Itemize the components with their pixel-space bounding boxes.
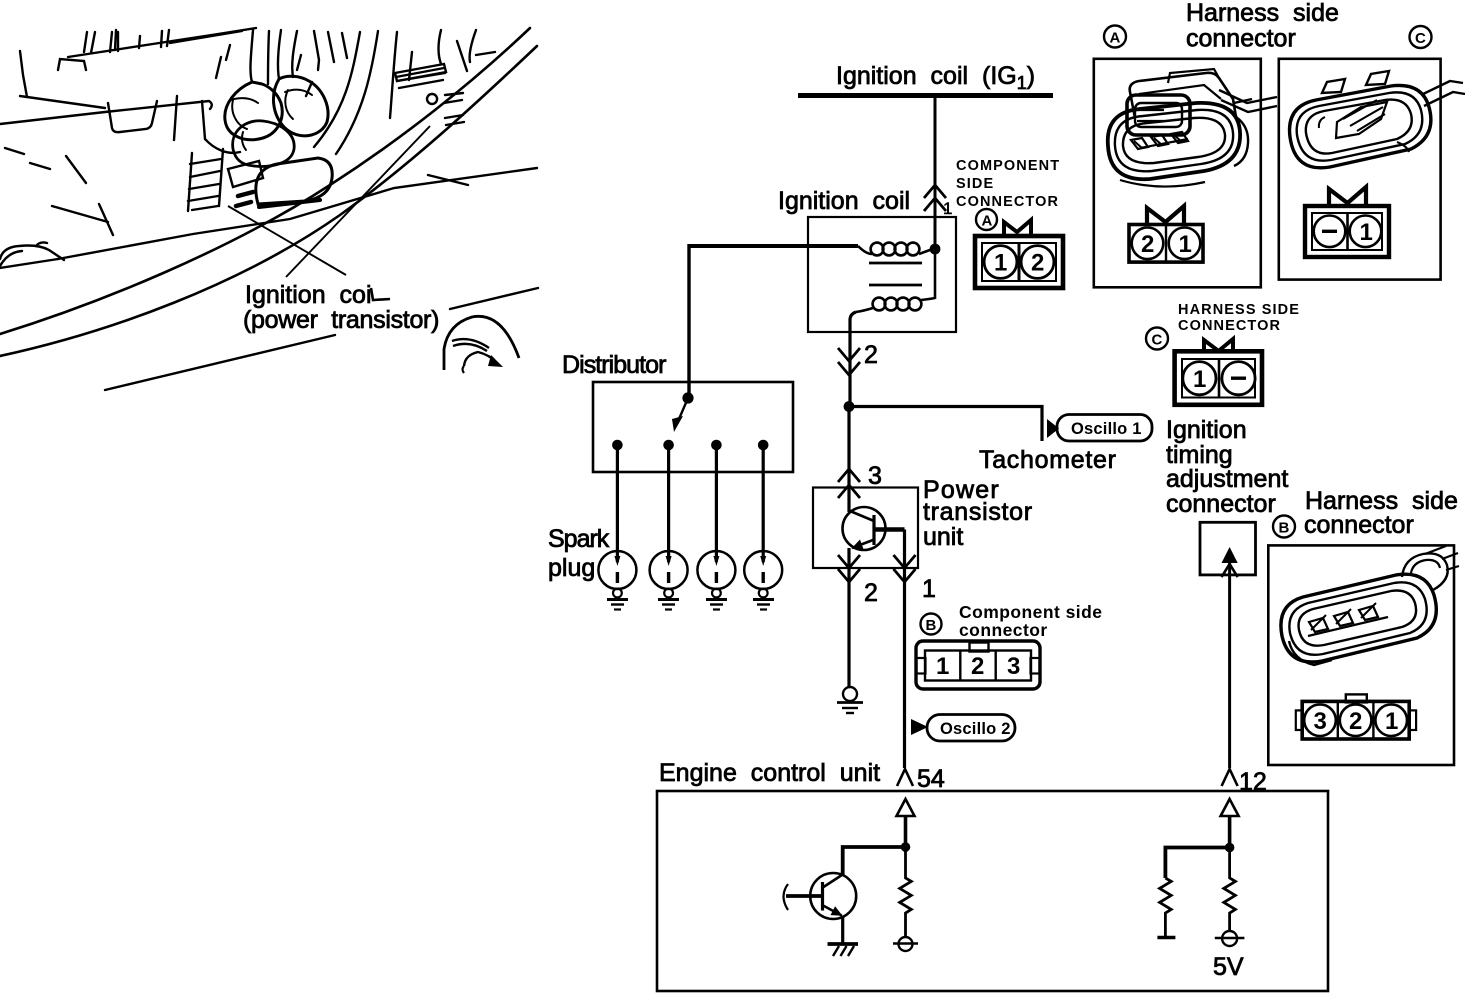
junction ECU right	[1225, 843, 1235, 853]
wire to R2	[1165, 848, 1229, 879]
svg-text:C: C	[1415, 30, 1426, 47]
harness side connector A box	[1094, 59, 1261, 287]
harness side connector C box (top right)	[1279, 59, 1441, 280]
svg-text:1: 1	[1193, 366, 1206, 393]
terminal triangle pin 54	[897, 799, 915, 816]
label HARNESS SIDE CONNECTOR (middle)	[1178, 302, 1300, 334]
label Power transistor unit	[923, 476, 1033, 551]
mating mark connector A	[1004, 220, 1031, 235]
svg-text:1: 1	[936, 653, 949, 680]
svg-text:Ignition coil: Ignition coil	[778, 187, 910, 215]
spark plug 3	[697, 551, 735, 610]
power transistor unit box	[813, 488, 918, 569]
wire pin 12 internal	[1228, 816, 1232, 852]
circled B (component side)	[921, 614, 942, 635]
distributor box	[593, 382, 793, 472]
circled C (harness side)	[1410, 26, 1432, 48]
connector symbol pin 3	[838, 469, 860, 498]
svg-text:1: 1	[943, 199, 952, 218]
transistor Q2	[786, 873, 856, 919]
harness side connector C pin box (top)	[1305, 206, 1389, 257]
svg-text:54: 54	[917, 765, 945, 793]
connector symbol pin 1 (coil supply)	[924, 185, 946, 211]
svg-text:Ignition: Ignition	[1166, 416, 1247, 444]
wire to tachometer	[849, 407, 1042, 442]
svg-text:unit: unit	[923, 523, 963, 551]
terminal triangle pin 12	[1221, 799, 1239, 816]
svg-text:5V: 5V	[1213, 953, 1244, 981]
label Harness side connector (top)	[1186, 0, 1339, 53]
harness side connector C illustration	[1290, 71, 1465, 168]
coil T1 secondary winding	[856, 308, 873, 312]
harness side connector A pin box	[1129, 225, 1203, 263]
svg-text:CONNECTOR: CONNECTOR	[956, 194, 1059, 210]
distributor rotor arm	[679, 398, 688, 419]
wire pin 54 internal	[904, 816, 908, 852]
oscillo 1 probe	[1047, 415, 1152, 442]
spark plug 2	[650, 551, 688, 610]
svg-text:Spark: Spark	[548, 525, 610, 553]
circled A (harness side)	[1104, 26, 1126, 48]
svg-text:3: 3	[1007, 653, 1020, 680]
svg-text:connector: connector	[959, 620, 1048, 640]
svg-text:2: 2	[1141, 231, 1154, 258]
svg-text:B: B	[1279, 520, 1290, 537]
ignition timing adjustment connector box	[1200, 522, 1256, 575]
mating mark harness C (top)	[1329, 187, 1366, 207]
wire secondary to junction	[934, 250, 937, 299]
distributor terminals	[612, 440, 623, 451]
coil T1 core	[869, 262, 922, 265]
junction coil output	[930, 244, 941, 255]
svg-text:adjustment: adjustment	[1166, 465, 1288, 493]
terminal circle 5V	[1215, 931, 1245, 946]
ground PTU emitter	[837, 687, 863, 713]
junction tachometer tap	[844, 401, 855, 412]
svg-text:Ignition coil (IG1): Ignition coil (IG1)	[836, 62, 1035, 93]
wire IG1 to coil connector	[934, 95, 937, 250]
node IG1 bus bar	[798, 93, 1053, 98]
harness side connector A illustration	[1108, 69, 1277, 187]
label Harness side connector (bottom)	[1304, 487, 1458, 539]
Q2 base continuation arc	[784, 884, 789, 910]
oscillo 2 probe	[911, 715, 1015, 742]
svg-text:3: 3	[1314, 708, 1327, 735]
connector symbol pin 2 (PTU emitter)	[838, 555, 860, 582]
leader line 2 (illustration)	[286, 126, 430, 277]
circled C (middle)	[1146, 328, 1168, 350]
wire coil pin2 down	[850, 312, 856, 407]
svg-text:Engine control unit: Engine control unit	[659, 759, 880, 787]
circled B (harness side)	[1273, 516, 1295, 538]
coil T1 primary winding	[858, 246, 872, 254]
ignition coil T1 box	[808, 217, 956, 332]
mating mark harness C (middle)	[1204, 339, 1233, 353]
svg-text:connector: connector	[1166, 490, 1276, 518]
wire distributor to spark plug 1	[616, 445, 619, 562]
svg-text:1: 1	[1385, 708, 1398, 735]
wire coil to distributor (vertical)	[687, 244, 690, 398]
label COMPONENT SIDE CONNECTOR	[956, 158, 1060, 210]
wire Q1 emitter down	[847, 548, 850, 687]
ground Q2 emitter	[828, 944, 859, 956]
svg-text:2: 2	[864, 579, 878, 607]
svg-text:1: 1	[922, 575, 936, 603]
curved arrow marker (illustration)	[444, 316, 519, 373]
terminal circle (R1 bottom)	[893, 937, 918, 951]
svg-text:Tachometer: Tachometer	[979, 446, 1117, 474]
svg-text:12: 12	[1239, 768, 1267, 796]
wire Q2 emitter to ground	[841, 916, 844, 945]
label Ignition coil (IG1)	[836, 62, 1035, 93]
label Ignition coil (power transistor)	[243, 281, 439, 334]
pin 54 connector chevron	[897, 769, 913, 786]
svg-text:transistor: transistor	[923, 498, 1033, 526]
svg-text:A: A	[982, 213, 993, 230]
svg-text:1: 1	[1360, 219, 1373, 246]
harness side connector B pin box	[1296, 694, 1416, 739]
svg-text:Ignition coi: Ignition coi	[245, 281, 372, 309]
svg-text:1: 1	[994, 250, 1007, 277]
wire junction to power transistor	[847, 407, 850, 513]
component side connector B pin box	[916, 641, 1040, 689]
component side connector A pin box	[975, 236, 1063, 288]
spark plug 4	[744, 551, 782, 610]
svg-text:Harness side: Harness side	[1186, 0, 1339, 27]
harness side connector B illustration	[1281, 546, 1459, 665]
junction ECU left	[901, 842, 911, 852]
svg-text:Oscillo 1: Oscillo 1	[1071, 420, 1142, 438]
svg-text:2: 2	[971, 653, 984, 680]
label Ignition timing adjustment connector	[1166, 416, 1288, 518]
spark plug 1	[598, 551, 636, 610]
svg-text:Component side: Component side	[959, 602, 1102, 622]
circled A (component side)	[976, 209, 997, 230]
resistor R1	[900, 852, 912, 937]
svg-text:2: 2	[864, 341, 878, 369]
wire coil primary to distributor (horizontal)	[689, 244, 858, 248]
svg-text:SIDE: SIDE	[956, 176, 994, 192]
svg-text:connector: connector	[1304, 511, 1414, 539]
pin 12 connector chevron	[1222, 769, 1238, 786]
wire distributor to spark plug 4	[762, 445, 765, 562]
harness side connector B box	[1268, 545, 1454, 765]
svg-text:(power transistor): (power transistor)	[243, 306, 439, 334]
svg-text:C: C	[1152, 332, 1163, 349]
svg-text:1: 1	[1179, 231, 1192, 258]
svg-text:3: 3	[868, 462, 882, 490]
connector symbol pin 1 (PTU base)	[894, 555, 916, 582]
arrow terminal in timing connector	[1222, 547, 1238, 577]
svg-text:Distributor: Distributor	[562, 351, 666, 379]
resistor R3	[1224, 852, 1236, 931]
wire distributor to spark plug 2	[667, 445, 670, 562]
svg-text:HARNESS SIDE: HARNESS SIDE	[1178, 302, 1300, 318]
connector symbol pin 2 (coil)	[838, 348, 860, 375]
svg-text:A: A	[1110, 30, 1121, 47]
svg-text:2: 2	[1031, 250, 1044, 277]
wire timing connector to ECU pin 12	[1228, 560, 1231, 768]
label Component side connector	[959, 602, 1102, 640]
harness side connector C pin box (middle)	[1175, 351, 1262, 405]
svg-text:Oscillo 2: Oscillo 2	[940, 720, 1011, 738]
ECU box	[657, 791, 1328, 991]
mating mark harness A	[1147, 206, 1184, 226]
svg-text:plug: plug	[548, 554, 595, 582]
label Spark plug	[548, 525, 610, 582]
svg-text:2: 2	[1349, 708, 1362, 735]
wire to Q2 collector	[843, 847, 906, 875]
engine compartment illustration (line art)	[0, 28, 538, 390]
resistor R2	[1160, 878, 1172, 936]
svg-text:CONNECTOR: CONNECTOR	[1178, 318, 1281, 334]
transistor Q1	[843, 507, 905, 550]
distributor rotor node	[682, 392, 693, 403]
wire Q1 base down to ECU	[903, 530, 906, 769]
svg-text:B: B	[926, 617, 937, 634]
R2 end bar	[1157, 936, 1175, 940]
svg-text:COMPONENT: COMPONENT	[956, 158, 1060, 174]
leader line ignition coil (illustration)	[228, 206, 346, 275]
svg-text:connector: connector	[1186, 25, 1296, 53]
wire distributor to spark plug 3	[715, 445, 718, 562]
